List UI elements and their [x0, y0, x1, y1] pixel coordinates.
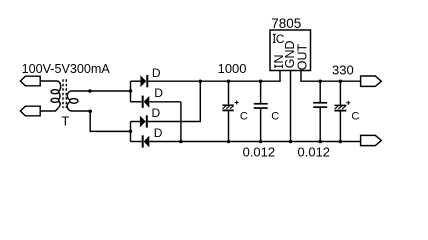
junction dot IC GND at ground rail	[289, 140, 293, 144]
junction dot C1 at ground rail	[227, 140, 231, 144]
wire IC GND pin to ground rail	[290, 71, 292, 142]
capacitor C1 (electrolytic 1000uF)	[222, 81, 233, 141]
transformer T core	[63, 79, 66, 108]
wire bus D1 anode / D2 cathode	[130, 81, 132, 102]
svg-text:D: D	[152, 106, 161, 120]
connector J4 (DC output -)	[361, 135, 382, 145]
wire D3 cathode up to +V rail	[148, 81, 201, 121]
junction dot C3 at ground rail	[318, 140, 322, 144]
svg-text:D: D	[154, 126, 163, 140]
label: C4 polarity +	[346, 101, 350, 105]
junction dot secondary bottom terminal	[88, 109, 92, 113]
junction dot C2 at +V rail	[259, 79, 263, 83]
diode D4 (bottom, rectifier, points left)	[131, 135, 150, 147]
connector J2 (AC input bottom)	[20, 106, 40, 116]
junction dot D2 at ground rail	[179, 140, 183, 144]
connector J1 (AC input top)	[20, 76, 40, 86]
capacitor C4 (electrolytic 330uF)	[334, 81, 346, 141]
svg-text:7805: 7805	[271, 16, 301, 31]
wire ground rail (D4 anode to output)	[149, 141, 360, 143]
svg-text:100V-5V300mA: 100V-5V300mA	[22, 62, 111, 76]
svg-text:330: 330	[332, 62, 354, 77]
label: C1 polarity +	[235, 101, 239, 105]
diode D3 (third, rectifier)	[131, 115, 148, 127]
junction dot node AC2	[129, 130, 133, 134]
svg-text:1000: 1000	[218, 61, 247, 76]
wire secondary bottom down-right to bridge (node AC2)	[90, 111, 130, 131]
wire IC OUT pin to +V out rail	[301, 71, 361, 82]
op-amp U1: voltage regulator IC 7805 body	[270, 30, 311, 71]
wire J2 to transformer primary bottom	[40, 108, 58, 111]
svg-text:C: C	[351, 111, 359, 123]
connector J3 (DC output +)	[361, 76, 382, 86]
capacitor C3 (film 0.012)	[313, 81, 327, 141]
svg-text:D: D	[152, 66, 161, 80]
capacitor C2 (film 0.012)	[254, 81, 268, 141]
label: pin IN	[275, 65, 283, 68]
wire J1 to transformer primary top	[40, 80, 57, 82]
junction dot D3 at +V rail	[199, 79, 203, 83]
transformer T primary winding	[51, 81, 61, 108]
svg-text:D: D	[154, 86, 163, 100]
diode D2 (second, rectifier, points left)	[131, 96, 181, 108]
junction dot C4 at out rail	[339, 79, 343, 83]
junction dot node AC1	[129, 89, 133, 93]
wire D2 anode down to ground rail	[180, 102, 182, 142]
transformer T secondary winding	[67, 91, 78, 111]
diode D1 (top, rectifier)	[131, 75, 149, 87]
wire +V rail left (D1 cathode to IC IN pin)	[148, 71, 280, 82]
svg-text:0.012: 0.012	[298, 144, 331, 159]
svg-text:OUT: OUT	[296, 43, 310, 70]
svg-text:C: C	[240, 111, 248, 123]
junction dot C3 at out rail	[318, 79, 322, 83]
label IC	[273, 34, 276, 42]
wire secondary top to bridge (node AC1)	[71, 90, 131, 92]
wire bus D3 anode / D4 cathode	[130, 122, 132, 142]
wire secondary bottom terminal	[71, 110, 91, 112]
svg-text:T: T	[61, 114, 69, 129]
junction dot C1 at +V rail	[227, 79, 231, 83]
junction dot C4 at ground rail	[339, 140, 343, 144]
svg-text:C: C	[271, 111, 279, 123]
svg-text:0.012: 0.012	[243, 144, 276, 159]
junction dot secondary top terminal	[88, 89, 92, 93]
junction dot C2 at ground rail	[259, 140, 263, 144]
